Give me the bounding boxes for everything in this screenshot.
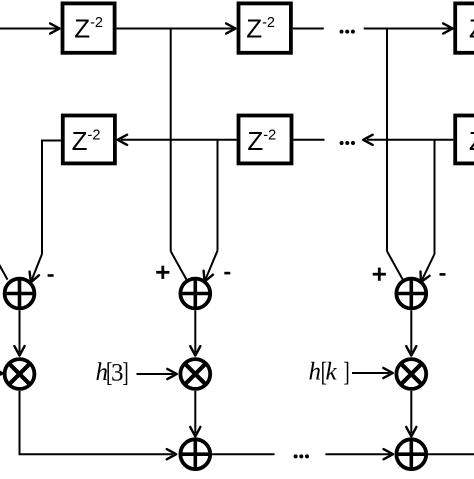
delay block Z2 [239,3,291,52]
node tap T1 [170,29,172,252]
wire hk to M3 [352,372,390,374]
wire plus input col3 [387,251,403,280]
wire dots to Z5 [294,139,325,141]
wire input [0,28,58,30]
node tap T4 [434,140,436,254]
minus label col1 [48,274,54,277]
svg-text:k: k [326,359,338,386]
wire A2 to M2 [194,310,196,352]
delay block Z6 [455,116,474,164]
minus label col3 [440,273,446,276]
wire plus input col2 [171,251,187,280]
wire A3 to M3 [410,310,412,352]
wire dots to Z3 [364,28,452,30]
wire minus input col2 [205,251,218,282]
svg-text:]: ] [122,359,128,389]
wire minus input col3 [421,254,435,282]
plus label col3 [373,273,386,276]
wire Z1 to Z2 [117,28,234,30]
wire A1 to M1 [19,310,21,352]
delay block Z5 [239,116,292,164]
plus label col2 [156,271,169,274]
multiplier M3 [396,359,426,389]
adder A3 [396,279,426,309]
svg-text:Z-2: Z-2 [469,14,474,44]
ellipsis top [340,30,344,34]
wire M3 to B3 [410,391,412,433]
wire Z5 to Z4 [121,139,237,141]
multiplier M2 [180,359,210,389]
wire B2 to dots [212,453,274,455]
adder A1 [5,279,35,309]
node tap T3 [217,140,219,251]
wire Z2 to dots [293,28,324,30]
wire output [428,453,474,455]
wire Z4 output stub [42,141,61,255]
adder B2 [180,439,210,469]
node tap T2 [386,29,388,252]
adder A2 [180,279,210,309]
delay block Z4 [63,116,115,164]
wire Z6 output left [367,139,453,141]
wire dots to B3 [325,453,390,455]
ellipsis bottom [294,454,298,458]
wire M1 to bottom bus [20,391,173,454]
delay block Z3 [455,3,474,52]
svg-text:h: h [309,359,322,386]
ellipsis mid [340,141,344,145]
wire h3 to M2 [137,373,174,375]
svg-text:]: ] [343,358,349,388]
svg-text:Z-2: Z-2 [469,126,474,156]
multiplier M1 [5,359,35,389]
minus label col2 [224,272,230,275]
wire minus input col1 [31,254,42,282]
wire plus input col1 (clipped) [0,251,8,280]
wire M2 to B2 [194,391,196,433]
wire coef input col1 (clipped) [0,372,1,374]
delay block Z1 [63,3,115,52]
adder B3 [396,439,426,469]
